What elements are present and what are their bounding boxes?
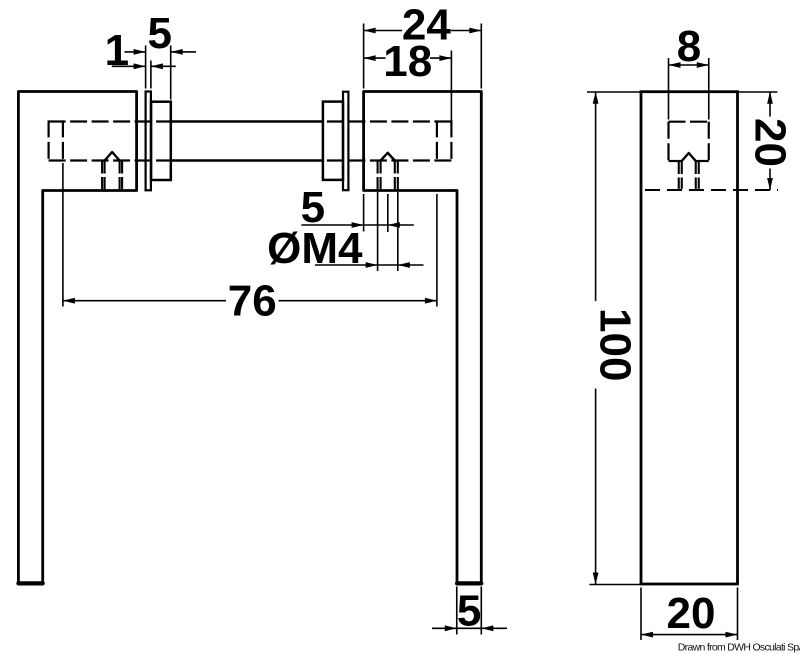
left hub hidden square hole (dashed)	[49, 120, 171, 161]
dimension 100 (handle length, side view)	[587, 92, 641, 585]
dimension 5 (lever thickness, bottom right)	[432, 587, 507, 636]
left rose plate (1 mm)	[146, 92, 151, 191]
svg-text:8: 8	[677, 22, 701, 71]
side view hidden square hole (dashed)	[669, 122, 709, 161]
dimension 20 (square hole depth, side view right)	[738, 92, 795, 190]
right hub M4 drill point chevron	[381, 153, 395, 161]
right hub M4 threaded hole (hidden)	[378, 161, 398, 190]
right rose washer	[323, 102, 343, 180]
side view M4 threaded hole (hidden)	[679, 161, 699, 189]
dimension ØM4 (grub screw thread)	[267, 192, 423, 273]
svg-text:5: 5	[148, 9, 172, 58]
dimension 1 (rose plate thickness)	[105, 26, 176, 89]
spindle left end hidden (dashed)	[62, 120, 64, 161]
svg-text:20: 20	[745, 118, 794, 167]
right rose plate (1 mm)	[343, 92, 348, 191]
right handle outline (front view)	[364, 92, 482, 584]
right hub hidden square hole (dashed)	[323, 120, 452, 161]
svg-text:100: 100	[590, 308, 639, 381]
side view hole depth hidden line	[641, 189, 778, 191]
dimension 5 (rose assembly thickness)	[125, 9, 197, 99]
dimension 8 (square hole width, side view)	[669, 22, 709, 120]
dimension 5 (M4 hole offset)	[301, 183, 414, 232]
dimension 76 (spindle length)	[63, 163, 437, 326]
svg-text:Drawn from DWH Osculati SpA: Drawn from DWH Osculati SpA	[678, 641, 800, 653]
dimension 24 (hub width)	[364, 0, 482, 88]
side view body	[641, 92, 738, 584]
svg-text:20: 20	[667, 589, 716, 638]
svg-text:76: 76	[228, 277, 277, 326]
svg-text:1: 1	[105, 26, 129, 75]
left hub M4 threaded hole (hidden)	[102, 161, 122, 190]
left rose washer	[151, 102, 171, 180]
dimension 20 (body width, side view bottom)	[641, 588, 738, 641]
side view M4 drill point chevron	[682, 153, 696, 161]
svg-text:18: 18	[383, 37, 432, 86]
dimension 18 (square hole depth)	[364, 37, 452, 121]
spindle right end hidden (dashed)	[436, 120, 438, 161]
svg-text:ØM4: ØM4	[267, 224, 363, 273]
spindle visible segment	[171, 122, 323, 161]
svg-text:5: 5	[457, 587, 481, 636]
left hub M4 drill point chevron	[105, 152, 120, 161]
left handle outline (front view)	[18, 92, 136, 584]
